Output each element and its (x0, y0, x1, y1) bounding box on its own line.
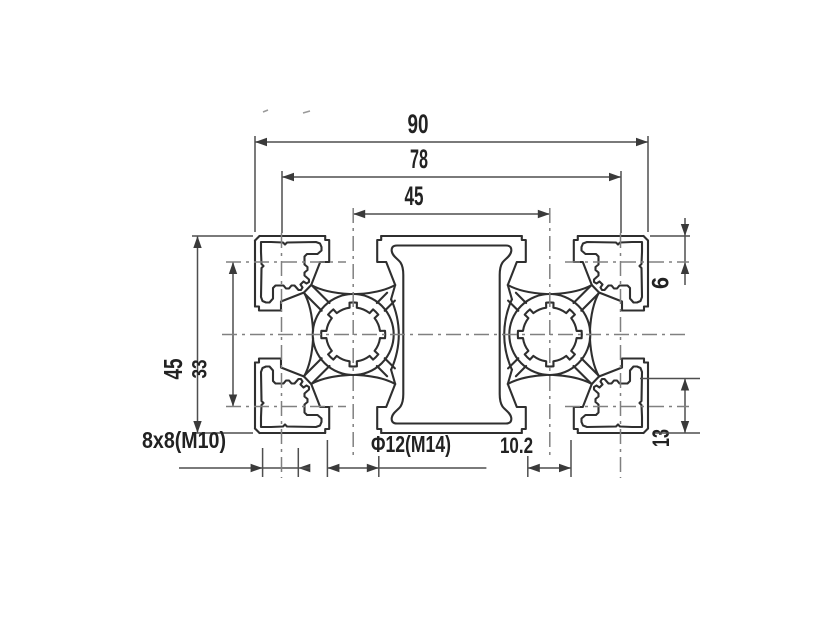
svg-text:90: 90 (408, 109, 429, 139)
svg-text:Φ12(M14): Φ12(M14) (371, 431, 451, 457)
svg-text:6: 6 (648, 277, 675, 289)
svg-text:45: 45 (158, 359, 188, 380)
svg-text:45: 45 (405, 181, 424, 211)
svg-text:10.2: 10.2 (500, 433, 533, 458)
svg-text:8x8(M10): 8x8(M10) (142, 427, 226, 453)
svg-text:78: 78 (410, 144, 428, 174)
svg-text:13: 13 (648, 429, 675, 447)
svg-text:33: 33 (189, 360, 212, 379)
